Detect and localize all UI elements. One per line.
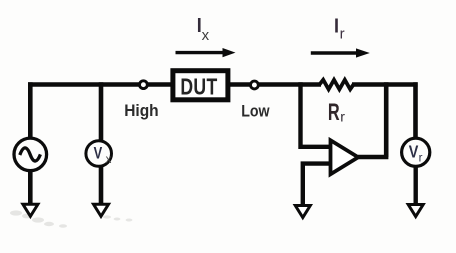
svg-text:Low: Low [241,103,269,121]
svg-text:V: V [94,145,103,163]
svg-text:High: High [124,103,158,121]
svg-text:DUT: DUT [180,74,217,100]
svg-text:x: x [202,27,210,44]
svg-text:x: x [106,154,112,166]
svg-text:R: R [328,99,340,126]
svg-text:I: I [334,16,339,38]
svg-text:r: r [419,153,423,165]
svg-text:r: r [340,26,345,43]
svg-text:V: V [409,142,419,162]
svg-text:r: r [340,109,345,125]
